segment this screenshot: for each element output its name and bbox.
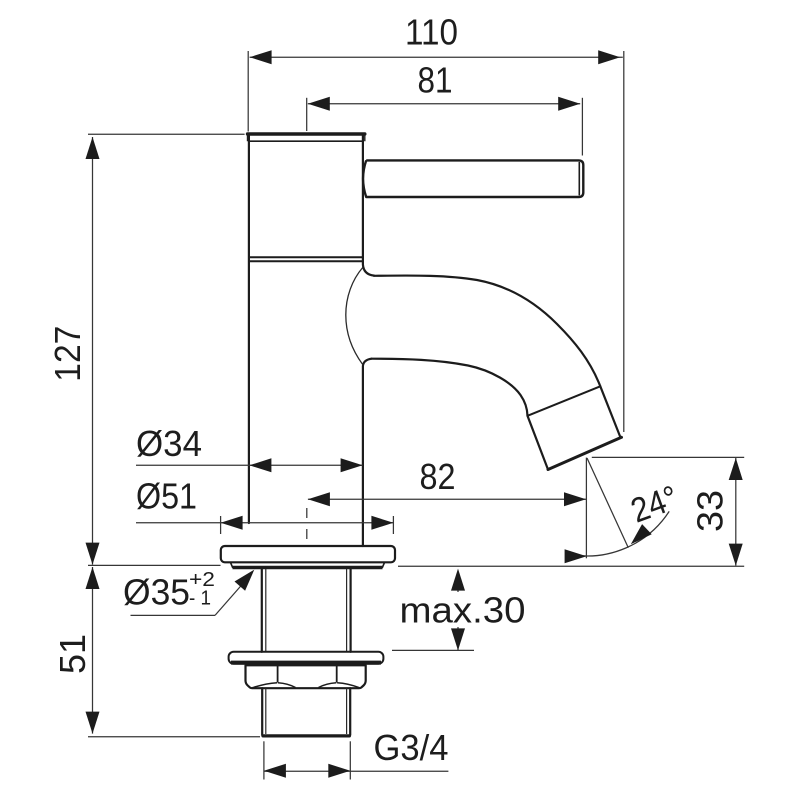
faucet body cap top plate bbox=[248, 133, 365, 141]
shank upper outer edges bbox=[262, 569, 351, 652]
dim 82 arrow left bbox=[308, 492, 330, 506]
spout outer curve bbox=[374, 276, 600, 387]
dim 110 extension right bbox=[623, 51, 625, 432]
dim 82 arrow right bbox=[564, 492, 586, 506]
dim 127 arrow up bbox=[86, 137, 100, 159]
svg-text:81: 81 bbox=[418, 60, 453, 101]
angle arc arrow at leg bbox=[631, 524, 652, 544]
dim 110 extension left bbox=[247, 51, 249, 132]
max.30 bottom ref line bbox=[392, 649, 474, 651]
dim 110 arrow left bbox=[250, 50, 272, 64]
mounting surface line left bbox=[88, 564, 221, 566]
dim O35 underline bbox=[131, 614, 216, 616]
dim O34 arrow right bbox=[341, 458, 363, 472]
dim G34 arrow right bbox=[328, 764, 350, 778]
dim 82 axis ticks bbox=[306, 508, 308, 539]
svg-text:51: 51 bbox=[52, 634, 93, 674]
spout-body intersection curve bbox=[346, 268, 363, 365]
shank upper thread lines bbox=[266, 569, 347, 652]
dim 81 arrow right bbox=[558, 97, 580, 111]
shank lower outer edges bbox=[262, 688, 350, 735]
dim 127 line bbox=[92, 137, 94, 565]
dim 110 line bbox=[250, 56, 623, 58]
dim 110 arrow right bbox=[598, 50, 620, 64]
body joint lines bbox=[248, 257, 363, 261]
aerator outlet face bbox=[548, 437, 622, 469]
svg-text:33: 33 bbox=[690, 490, 731, 532]
aerator left side bbox=[528, 416, 549, 470]
dim O51 ext left bbox=[220, 516, 222, 534]
flange bottom lip bbox=[231, 563, 385, 568]
svg-text:- 1: - 1 bbox=[189, 588, 211, 610]
dim 81 line bbox=[308, 103, 580, 105]
dim 51 arrow down bbox=[86, 712, 100, 734]
dim G34 ext left bbox=[263, 741, 265, 779]
faucet body right edge upper bbox=[363, 135, 374, 276]
faucet body right edge lower bbox=[363, 359, 372, 546]
angle 24 leg line bbox=[587, 458, 628, 548]
dim 51 arrow up bbox=[86, 567, 100, 589]
svg-text:127: 127 bbox=[47, 326, 88, 382]
dim O35 leader arrow bbox=[235, 570, 255, 591]
dim O34 line bbox=[136, 464, 363, 466]
dim 81 arrow left bbox=[308, 97, 330, 111]
angle vertical reference line bbox=[585, 458, 587, 559]
washer bbox=[229, 652, 384, 664]
dim G34 arrow left bbox=[264, 764, 286, 778]
dim O51 line bbox=[136, 522, 393, 524]
dim O34 arrow left bbox=[249, 458, 271, 472]
shank bottom cap bbox=[263, 734, 349, 737]
dim 81 extension left bbox=[306, 98, 308, 131]
aerator right side bbox=[600, 386, 620, 437]
shank lower thread lines bbox=[266, 688, 347, 734]
max.30 arrow down bbox=[457, 627, 459, 650]
mounting surface line right bbox=[398, 565, 744, 567]
max.30 arrow up bbox=[457, 572, 459, 592]
dim 82 line bbox=[308, 498, 586, 500]
dim 33 arrow up bbox=[729, 458, 743, 480]
svg-text:Ø51: Ø51 bbox=[136, 476, 197, 517]
dim O35 leader bbox=[215, 576, 250, 616]
lever handle outline bbox=[363, 160, 583, 197]
faucet body left edge bbox=[248, 135, 250, 524]
dim 51 line bbox=[92, 567, 94, 734]
dim O51 arrow right bbox=[371, 516, 393, 530]
dim 127 extension top bbox=[88, 133, 245, 135]
lever end cap line bbox=[578, 162, 580, 195]
nut chamfer arcs bbox=[252, 683, 359, 688]
dim O51 arrow left bbox=[221, 516, 243, 530]
dim O51 ext right bbox=[392, 516, 394, 534]
dim 127 arrow down bbox=[86, 543, 100, 565]
dim G34 ext right bbox=[349, 741, 351, 779]
angle 24 arc bbox=[570, 511, 669, 556]
svg-text:110: 110 bbox=[405, 12, 458, 53]
dim 33 line bbox=[735, 458, 737, 566]
svg-text:82: 82 bbox=[420, 456, 456, 497]
spout inner curve bbox=[372, 359, 528, 416]
nut facet lines bbox=[278, 665, 337, 682]
dim 33 arrow down bbox=[729, 544, 743, 566]
dim 51 extension bottom bbox=[88, 736, 260, 738]
hex backnut outline bbox=[246, 665, 366, 688]
flange escutcheon bbox=[221, 546, 395, 562]
svg-text:Ø35: Ø35 bbox=[123, 572, 190, 613]
svg-text:G3/4: G3/4 bbox=[374, 727, 449, 768]
angle arc arrow at vertical bbox=[565, 549, 587, 563]
svg-text:Ø34: Ø34 bbox=[136, 423, 202, 464]
dim G34 line bbox=[264, 770, 449, 772]
aerator separation line bbox=[528, 386, 601, 416]
svg-text:max.30: max.30 bbox=[400, 590, 526, 631]
dim 33 top extension bbox=[592, 456, 744, 458]
dim 81 extension right bbox=[581, 98, 583, 156]
